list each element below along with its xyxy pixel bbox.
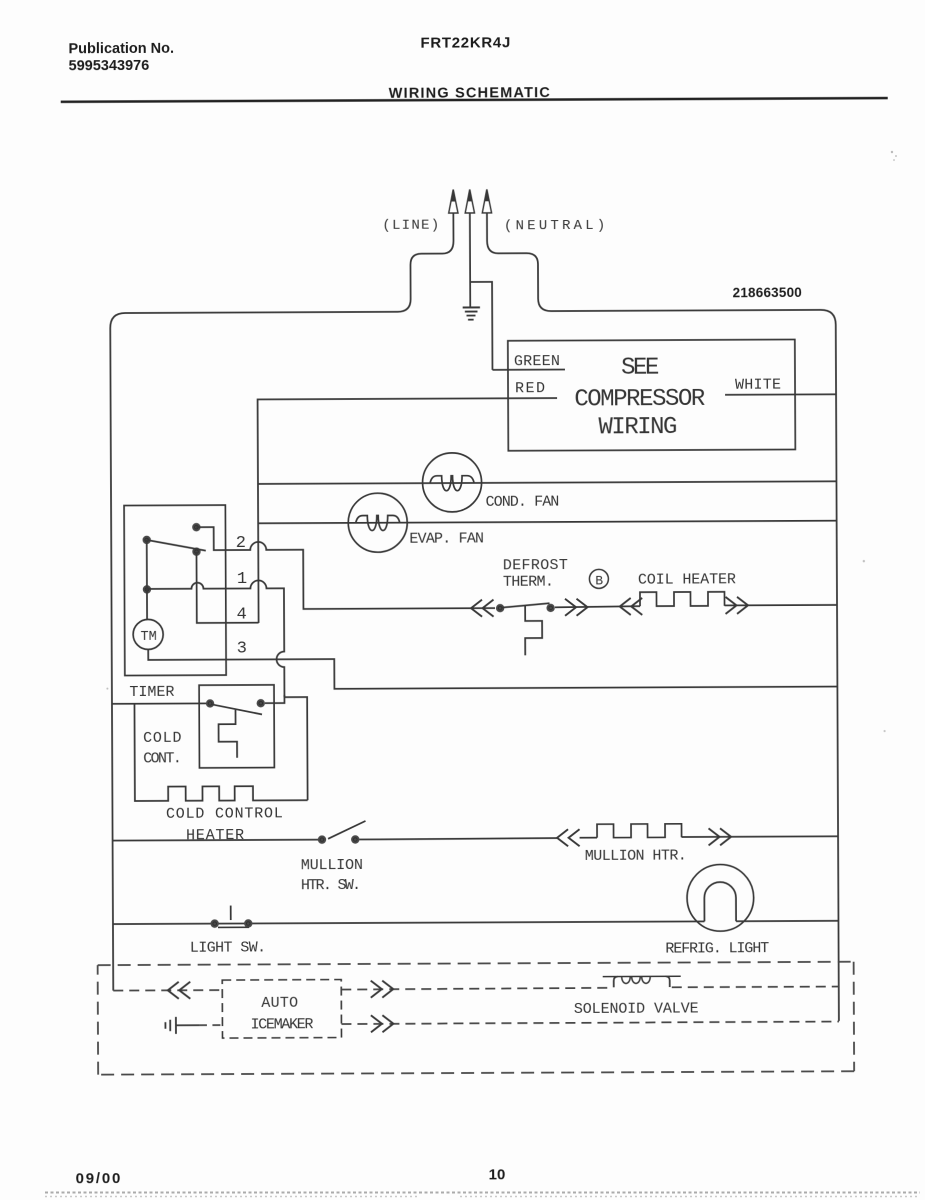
svg-text:COND. FAN: COND. FAN (486, 494, 559, 511)
svg-text:4: 4 (237, 605, 247, 624)
svg-text:SEE: SEE (621, 355, 659, 382)
svg-text:REFRIG. LIGHT: REFRIG. LIGHT (665, 940, 769, 957)
svg-text:CONT.: CONT. (143, 750, 180, 767)
svg-text:COIL HEATER: COIL HEATER (638, 571, 736, 588)
svg-text:218663500: 218663500 (733, 285, 802, 300)
svg-text:(LINE): (LINE) (382, 218, 440, 234)
svg-text:5995343976: 5995343976 (69, 58, 150, 74)
svg-text:COMPRESSOR: COMPRESSOR (574, 386, 705, 414)
svg-text:TM: TM (141, 630, 157, 645)
svg-text:3: 3 (237, 639, 247, 658)
svg-text:DEFROST: DEFROST (503, 557, 568, 574)
svg-text:B: B (595, 573, 603, 588)
svg-text:HTR. SW.: HTR. SW. (301, 877, 359, 894)
svg-text:WIRING: WIRING (598, 414, 676, 441)
svg-text:WHITE: WHITE (735, 377, 781, 394)
svg-text:THERM.: THERM. (503, 574, 553, 591)
svg-text:2: 2 (236, 534, 246, 553)
svg-text:AUTO: AUTO (261, 995, 298, 1012)
svg-text:SOLENOID VALVE: SOLENOID VALVE (574, 1000, 699, 1018)
svg-text:RED: RED (515, 380, 547, 397)
svg-text:HEATER: HEATER (186, 827, 245, 844)
svg-text:COLD CONTROL: COLD CONTROL (166, 805, 284, 823)
svg-text:FRT22KR4J: FRT22KR4J (420, 34, 511, 51)
svg-text:ICEMAKER: ICEMAKER (250, 1016, 313, 1033)
svg-text:MULLION: MULLION (301, 857, 363, 874)
svg-text:Publication No.: Publication No. (68, 41, 174, 57)
svg-text:LIGHT SW.: LIGHT SW. (190, 939, 266, 956)
svg-text:1: 1 (237, 570, 247, 589)
svg-text:(NEUTRAL): (NEUTRAL) (504, 218, 608, 234)
svg-text:MULLION HTR.: MULLION HTR. (585, 847, 686, 864)
svg-text:GREEN: GREEN (514, 353, 560, 370)
svg-text:09/00: 09/00 (76, 1170, 123, 1187)
svg-text:COLD: COLD (143, 730, 182, 747)
svg-text:10: 10 (489, 1166, 506, 1183)
svg-text:TIMER: TIMER (129, 684, 174, 701)
svg-text:EVAP. FAN: EVAP. FAN (409, 530, 483, 547)
